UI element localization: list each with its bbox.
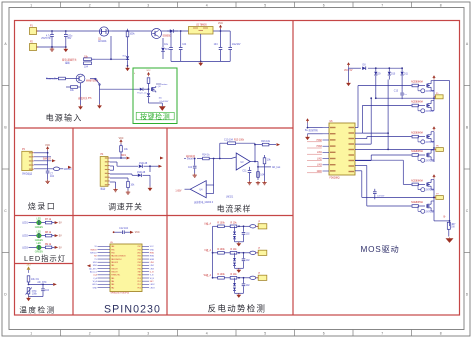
net flag LED1 out	[55, 221, 62, 225]
mcu right pin labels	[150, 246, 155, 289]
svg-text:2N7002: 2N7002	[426, 91, 435, 93]
svg-text:R 100k: R 100k	[217, 249, 225, 251]
green label 按键检测	[136, 112, 174, 121]
op-amp U3A	[236, 153, 250, 170]
svg-text:PB1: PB1	[138, 265, 141, 267]
IC U5 SPIN0230 MCU	[98, 244, 150, 292]
svg-text:TIM2CH: TIM2CH	[111, 271, 118, 273]
label U6	[330, 121, 340, 180]
svg-text:PB0: PB0	[138, 268, 141, 270]
label R1 100k	[130, 34, 136, 36]
capacitor C8 ntc filter	[41, 284, 49, 296]
svg-text:100k: 100k	[32, 293, 38, 295]
wire gate bus LO2	[355, 160, 412, 184]
section label SPIN0230	[104, 304, 161, 316]
ground speed 2	[126, 191, 130, 195]
resistor bemf W相 b	[230, 274, 237, 279]
svg-text:25V/X7R: 25V/X7R	[41, 38, 51, 40]
ground below zener D3	[125, 67, 130, 72]
ground current sample a	[247, 181, 251, 185]
label mosfet Q9	[411, 150, 423, 153]
svg-text:PB6: PB6	[138, 249, 141, 251]
svg-text:PA2: PA2	[111, 286, 114, 289]
capacitor C4 mid	[179, 30, 183, 61]
capacitor C7 burn	[46, 152, 50, 180]
svg-text:LED3: LED3	[150, 287, 155, 289]
IC U6 gate driver	[323, 123, 356, 175]
resistor R17 div	[263, 155, 271, 181]
label C1 4.7u	[41, 36, 51, 41]
ground of regulator rail	[198, 61, 203, 66]
wire gate bus LO1	[355, 155, 412, 161]
svg-text:35V: 35V	[67, 38, 72, 40]
feedback wire top	[220, 143, 255, 161]
svg-text:PD3: PD3	[138, 278, 141, 280]
svg-text:VCC: VCC	[150, 246, 155, 248]
label C2 100u	[67, 36, 73, 41]
label U5 refdes	[110, 242, 130, 295]
divider right of burn port column	[72, 128, 74, 315]
resistor gate R24	[412, 205, 425, 208]
svg-text:LM321: LM321	[226, 197, 234, 199]
net flag mcu left arrow	[87, 264, 104, 267]
svg-text:100u: 100u	[67, 36, 73, 38]
svg-text:HIN1: HIN1	[150, 253, 154, 255]
svg-text:R 10k: R 10k	[230, 249, 237, 251]
svg-text:PA10/RX: PA10/RX	[111, 261, 119, 264]
resistor bemf V相 a	[217, 249, 225, 254]
label mosfet Q7	[411, 101, 423, 104]
wire input return rail	[37, 46, 67, 48]
regulator U2 78M05	[189, 27, 214, 62]
svg-text:▪: ▪	[134, 72, 135, 75]
svg-text:HIN2: HIN2	[317, 140, 323, 142]
resistor R12 speed pullup	[120, 144, 129, 159]
zener D2 below Q2	[161, 38, 170, 59]
svg-text:PD2: PD2	[138, 281, 141, 283]
wire mos pair1 vertical	[433, 81, 435, 111]
svg-text:R8 1k: R8 1k	[45, 232, 52, 234]
resistor R4 power-on	[46, 77, 76, 80]
svg-text:PD0: PD0	[138, 287, 141, 289]
svg-text:D10: D10	[391, 74, 396, 76]
resistor R14 opamp in	[197, 155, 220, 160]
diode D7 speed	[132, 172, 150, 177]
svg-text:W_B: W_B	[150, 278, 155, 280]
connector P2 battery -	[30, 42, 39, 51]
svg-text:AD_Iout: AD_Iout	[90, 270, 97, 273]
wire speed row2	[110, 162, 138, 166]
svg-text:电源输入: 电源输入	[46, 113, 83, 123]
svg-text:PA9: PA9	[111, 264, 114, 267]
transistor Q4 key detect	[152, 86, 162, 92]
svg-text:LED1: LED1	[92, 284, 97, 286]
wire LED1 row	[29, 222, 55, 224]
svg-text:PB4: PB4	[111, 253, 114, 255]
svg-text:LIN3: LIN3	[317, 165, 323, 167]
wire opamp out	[250, 143, 258, 162]
svg-text:HIN3: HIN3	[150, 259, 154, 261]
svg-text:AO3401: AO3401	[98, 40, 107, 43]
ground below C2	[63, 48, 68, 53]
svg-text:R15 100k: R15 100k	[234, 140, 245, 142]
net label Power_On	[46, 78, 58, 81]
resistor bemf U相 a	[217, 223, 225, 228]
svg-text:7: 7	[381, 332, 383, 336]
net label LED2	[22, 236, 28, 238]
net label LED1	[22, 223, 28, 225]
label bemf cap U相	[246, 233, 251, 235]
wire AD_NTC node	[28, 281, 57, 286]
connector P5 phase U	[434, 93, 443, 99]
ground driver	[305, 134, 322, 140]
svg-text:100k: 100k	[130, 34, 136, 36]
VCC flag driver	[306, 118, 323, 127]
resistor R16 out	[261, 141, 276, 146]
svg-text:R 10k: R 10k	[230, 274, 237, 276]
resistor R18 div2	[257, 172, 265, 178]
svg-text:SPIN0230: SPIN0230	[104, 304, 161, 316]
resistor bemf U相 b	[230, 223, 237, 228]
svg-text:烧录口: 烧录口	[28, 201, 57, 211]
svg-text:PB3: PB3	[138, 259, 141, 261]
transistor pulldown q1	[418, 86, 434, 93]
svg-text:AD_Iout: AD_Iout	[272, 166, 281, 169]
ground opamp in	[193, 174, 197, 178]
svg-text:HIN2: HIN2	[150, 256, 154, 258]
svg-text:NCE80H9A: NCE80H9A	[411, 201, 423, 204]
capacitor C9 opamp in	[188, 158, 196, 174]
wire opamp input node	[219, 157, 236, 159]
wire burn pins	[34, 153, 53, 169]
wire main input rail	[37, 30, 231, 32]
svg-text:SWCLK: SWCLK	[43, 159, 52, 161]
net label back-EMF W相	[204, 273, 212, 277]
net label B+ supply	[305, 127, 319, 133]
transistor pulldown q3	[418, 137, 434, 144]
svg-text:6: 6	[323, 3, 325, 7]
label LED3 green	[35, 243, 44, 253]
label 自锁开关	[78, 96, 92, 100]
connector bemf V相	[256, 248, 266, 255]
label C5	[214, 44, 219, 46]
svg-text:2N7002: 2N7002	[426, 211, 435, 213]
svg-text:2N7002: 2N7002	[426, 142, 435, 144]
diode D6 speed	[139, 163, 150, 172]
resistor gate R23	[412, 183, 425, 186]
net flag AD out top	[277, 143, 281, 146]
svg-text:PB5: PB5	[111, 249, 114, 251]
capacitor C14 filter	[373, 189, 385, 200]
svg-text:MOS驱动: MOS驱动	[360, 244, 399, 254]
svg-text:6: 6	[323, 332, 325, 336]
svg-text:3: 3	[147, 332, 149, 336]
svg-text:8: 8	[440, 3, 442, 7]
VCC flag mos supply	[344, 62, 353, 72]
wire bemf gnd rail W相	[235, 292, 244, 294]
svg-text:SPIN0230 TSSOP20: SPIN0230 TSSOP20	[111, 293, 131, 295]
driver left pin labels	[307, 140, 323, 173]
svg-text:4: 4	[206, 332, 208, 336]
resistor R8 led	[45, 232, 52, 237]
wire bemf row V相	[213, 252, 251, 254]
resistor R13 speed	[127, 181, 135, 190]
svg-text:PA15/MCO/SWDIO: PA15/MCO/SWDIO	[111, 255, 126, 258]
net flag speed out	[126, 157, 164, 160]
svg-text:R 100k: R 100k	[217, 223, 225, 225]
svg-text:SW2: SW2	[93, 265, 97, 267]
wire mos top rail	[349, 68, 403, 81]
LED D6 green	[37, 233, 42, 238]
ground mos supply	[346, 82, 351, 87]
svg-text:1N4148: 1N4148	[137, 172, 146, 174]
svg-text:C12 104: C12 104	[119, 228, 129, 230]
label C6	[232, 44, 241, 46]
resistor R15 feedback	[224, 140, 245, 145]
label key silk marker	[134, 72, 135, 75]
svg-text:调速开关: 调速开关	[108, 202, 142, 212]
label mosfet Q6	[411, 81, 423, 84]
svg-text:R7 1k: R7 1k	[45, 219, 52, 221]
transistor pulldown q2	[418, 106, 434, 113]
net flag mcu top	[130, 231, 140, 235]
transistor pulldown q6	[418, 206, 434, 213]
net label button	[156, 83, 168, 86]
section label 电流采样 (current sampling)	[217, 204, 251, 214]
svg-text:LIN3: LIN3	[150, 268, 154, 270]
net flag LED2 out	[55, 234, 62, 238]
wire key input	[137, 92, 147, 94]
switch SW1 self-lock	[90, 78, 100, 104]
svg-text:1: 1	[30, 332, 32, 336]
svg-text:104: 104	[182, 44, 187, 46]
wire speed row1	[110, 157, 126, 159]
svg-text:GND: GND	[150, 249, 155, 251]
diode D12 key	[140, 88, 150, 91]
svg-text:R 100k: R 100k	[217, 274, 225, 276]
wire gate bus HO2	[355, 106, 412, 134]
svg-text:5V: 5V	[59, 223, 62, 225]
svg-text:3V3: 3V3	[26, 264, 31, 266]
transistor pulldown q4	[418, 155, 434, 162]
svg-text:5V: 5V	[59, 247, 62, 249]
svg-text:NCE80H9A: NCE80H9A	[411, 150, 423, 153]
resistor gate R22	[412, 154, 425, 157]
capacitor bemf V相	[242, 252, 246, 268]
svg-text:温度检测: 温度检测	[19, 305, 55, 315]
divider below LED indicator section	[15, 263, 74, 265]
svg-text:PA4: PA4	[111, 280, 114, 283]
net flag LED3 out	[55, 246, 62, 250]
svg-text:3: 3	[147, 3, 149, 7]
svg-text:VCC: VCC	[119, 138, 124, 140]
svg-text:VCC: VCC	[147, 70, 152, 72]
svg-text:GREEN: GREEN	[35, 227, 44, 229]
label bemf cap W相	[246, 285, 251, 287]
divider below middle sections	[15, 215, 294, 217]
svg-text:2: 2	[89, 332, 91, 336]
svg-text:D11: D11	[404, 74, 409, 76]
svg-text:Shunt+: Shunt+	[187, 158, 195, 161]
capacitor C5 out	[219, 30, 223, 61]
svg-text:LED: LED	[37, 218, 42, 220]
svg-text:PA13/SWCLK: PA13/SWCLK	[111, 258, 122, 261]
LED D7 green	[37, 245, 42, 250]
svg-text:PA6: PA6	[138, 274, 141, 277]
diode bemf out U相	[250, 225, 258, 228]
svg-text:5: 5	[264, 332, 266, 336]
svg-text:Power_sw: Power_sw	[137, 92, 147, 94]
transistor MOSFET Q11	[427, 201, 434, 211]
net label LED3	[22, 247, 28, 249]
wire LED3 row	[29, 246, 55, 248]
svg-text:R 10k: R 10k	[230, 223, 237, 225]
VCC flag at regulator output	[218, 23, 223, 31]
svg-text:PA5: PA5	[111, 277, 114, 280]
wire U4 wiring	[185, 158, 215, 194]
section label 调速开关 (speed switch)	[108, 202, 142, 212]
ground temperature	[26, 297, 31, 302]
net flag SWCLK	[43, 159, 56, 163]
svg-text:AD_NTC: AD_NTC	[37, 281, 47, 284]
svg-text:5V: 5V	[59, 236, 62, 238]
net label back-EMF V相	[204, 248, 211, 252]
labels TVS	[378, 74, 409, 76]
svg-text:电流采样: 电流采样	[217, 204, 251, 214]
VCC flag burn port	[45, 145, 50, 153]
wire LED2 row	[29, 235, 55, 237]
diode D8 boot	[362, 64, 366, 70]
capacitor C13 boot1	[400, 90, 407, 99]
wire temp ground rail	[29, 296, 44, 298]
net flag speed row5	[149, 165, 162, 168]
resistor R10 ntc pullup	[27, 276, 39, 285]
wire phase W line	[355, 80, 435, 199]
section label 电源输入 (power input)	[46, 113, 83, 123]
wire speed row4	[110, 174, 132, 181]
label C12	[119, 228, 129, 230]
wire gate bus LO3	[355, 166, 412, 207]
labels key values	[159, 97, 169, 103]
label C13	[394, 91, 399, 93]
transistor MOSFET Q6	[427, 81, 434, 91]
wire gate bus HO1	[355, 86, 412, 128]
svg-text:7: 7	[381, 3, 383, 7]
svg-text:2: 2	[89, 3, 91, 7]
VCC flag temperature	[26, 264, 31, 273]
svg-text:SS8050: SS8050	[163, 36, 172, 38]
wire speed gnd1	[110, 182, 116, 188]
svg-text:NCE80H9A: NCE80H9A	[411, 101, 423, 104]
VCC flag in key detect	[147, 70, 152, 76]
resistor R5 base	[66, 83, 81, 92]
connector P1 battery +	[30, 26, 39, 35]
label mosfet Q11	[411, 201, 423, 204]
svg-text:GND: GND	[317, 171, 322, 173]
wire divider to R1	[95, 58, 128, 60]
svg-text:SW1: SW1	[121, 155, 127, 157]
wire switch to key detect box	[100, 88, 140, 90]
svg-text:LED1: LED1	[22, 223, 28, 225]
section label 反电动势检测 (back-EMF detect)	[208, 304, 267, 314]
label mosfet Q8	[411, 132, 423, 135]
svg-text:VCC: VCC	[135, 232, 140, 234]
svg-text:LED指示灯: LED指示灯	[24, 254, 66, 263]
svg-text:1: 1	[30, 3, 32, 7]
ground burn port	[45, 180, 49, 184]
transistor MOSFET Q10	[427, 179, 434, 189]
wire out up branch	[254, 144, 262, 146]
transistor Q3 MMBT3904	[76, 74, 99, 83]
wire out down branch	[257, 162, 271, 181]
svg-text:2N7002: 2N7002	[426, 111, 435, 113]
divider below power input section	[15, 127, 294, 129]
svg-text:5: 5	[264, 3, 266, 7]
label nets 双电 调速开关	[62, 58, 77, 65]
capacitor C12 mcu top	[113, 230, 130, 234]
capacitor C2 input bulk	[64, 30, 68, 47]
wire phase U line	[355, 80, 434, 145]
ground bemf V相	[236, 268, 241, 273]
resistor R25 shunt	[447, 222, 456, 236]
svg-text:SWDIO: SWDIO	[64, 169, 72, 171]
ground in key detect	[159, 106, 166, 111]
label mosfet Q10	[411, 179, 423, 182]
svg-text:HIN3: HIN3	[317, 146, 323, 148]
svg-text:button: button	[162, 83, 169, 86]
VCC flag speed	[119, 138, 124, 144]
transistor MOSFET Q9	[427, 150, 434, 160]
svg-text:PB7: PB7	[138, 246, 141, 248]
svg-text:1N4148: 1N4148	[139, 163, 148, 165]
divider right of speed switch column	[166, 128, 168, 315]
svg-text:8: 8	[440, 332, 442, 336]
net label SWDIO	[64, 166, 72, 171]
svg-text:LIN2: LIN2	[317, 158, 323, 160]
capacitor C1 input	[50, 30, 54, 48]
transistor MOSFET Q8	[427, 132, 434, 142]
transistor Q2 pass NPN	[151, 29, 163, 39]
capacitor bemf W相	[242, 277, 246, 293]
svg-text:SW1: SW1	[93, 262, 97, 264]
section label 烧录口 (programming port)	[28, 201, 57, 211]
svg-text:PWM/CTRL: PWM/CTRL	[111, 275, 120, 277]
capacitor C11 div	[242, 167, 251, 181]
label C7 104	[50, 174, 55, 179]
svg-text:10k 1%: 10k 1%	[31, 279, 39, 281]
svg-text:104: 104	[260, 175, 265, 177]
ground current sample b	[256, 181, 267, 185]
wire bemf row U相	[213, 225, 251, 227]
svg-text:GND: GND	[93, 287, 98, 289]
diode pair bemf U相	[233, 226, 239, 242]
svg-text:1.65V: 1.65V	[175, 190, 182, 192]
diodes TVS D9-D11	[374, 67, 404, 79]
resistor R1 pull	[126, 29, 129, 60]
svg-text:SWDIO: SWDIO	[90, 249, 97, 251]
svg-text:PA7: PA7	[138, 270, 141, 273]
resistor R9 led	[45, 244, 52, 249]
wire mos top to vcc rail	[434, 81, 450, 227]
svg-text:C10 104: C10 104	[224, 140, 234, 142]
ground below Q3	[78, 105, 83, 110]
wire key gnd bend	[149, 103, 163, 106]
label Q2	[163, 36, 172, 38]
net flag speed row1	[121, 155, 130, 160]
svg-text:PA8: PA8	[111, 245, 114, 248]
wire gate bus HO3	[355, 137, 412, 139]
svg-text:TIM1CH: TIM1CH	[111, 268, 118, 270]
